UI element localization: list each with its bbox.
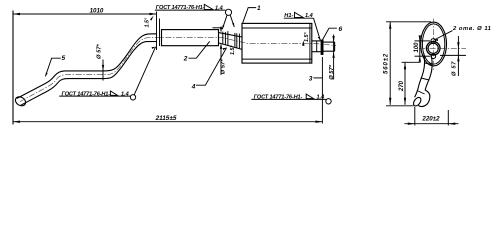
tail pipe segment seams: [417, 63, 433, 94]
muffler top seam: [242, 27, 312, 29]
extension line at outlet flange: [321, 57, 323, 124]
weld leader V left branch: [222, 15, 227, 29]
dimension 1010: [13, 13, 157, 15]
extension line left: [12, 11, 14, 125]
dimension Ø57 end view: [457, 36, 459, 76]
tail pipe end view: [415, 53, 432, 106]
weld callout H1 top middle: [284, 12, 314, 19]
svg-text:100: 100: [414, 42, 420, 53]
svg-text:1.5°: 1.5°: [304, 32, 310, 42]
weld circle bottom-left: [130, 95, 135, 100]
svg-text:2 отв. Ø 11: 2 отв. Ø 11: [452, 26, 491, 32]
muffler bottom seam: [242, 58, 312, 60]
svg-text:1010: 1010: [90, 7, 104, 14]
svg-text:Ø 57*: Ø 57*: [97, 43, 103, 59]
extension lines bolt holes: [415, 41, 431, 56]
dimension 220±2: [405, 123, 459, 125]
angle 1.5 arrow muffler outlet: [302, 40, 304, 46]
outlet pipe muffler to flange: [312, 41, 321, 52]
leader 2 holes: [434, 31, 453, 41]
leader 1: [243, 8, 257, 23]
extension line collar bottom: [440, 54, 466, 56]
svg-text:1.5°: 1.5°: [145, 17, 151, 27]
weld callout GOST bottom-right: [251, 94, 326, 100]
Ø57 dimension at inlet pipe: [102, 60, 104, 81]
weld callout GOST top: [155, 4, 226, 11]
resonator body: [162, 30, 219, 46]
leader 4: [196, 48, 227, 86]
weld leader V right branch: [230, 15, 234, 27]
muffler end view oval: [421, 22, 447, 66]
svg-text:5: 5: [61, 55, 65, 62]
tail pipe end opening: [412, 96, 422, 107]
dimension 100: [419, 35, 421, 61]
outlet pipe stub: [324, 42, 335, 51]
svg-text:2115±5: 2115±5: [155, 115, 177, 122]
weld leader H1 to outlet flange: [314, 18, 321, 40]
Ø57 dimension after resonator: [220, 27, 222, 76]
inlet pipe end ellipse: [14, 95, 27, 108]
svg-text:560±2: 560±2: [383, 53, 389, 74]
svg-text:220±2: 220±2: [421, 116, 440, 123]
leader 3: [313, 77, 322, 79]
joint rings after resonator: [223, 31, 240, 48]
svg-text:2: 2: [183, 55, 188, 62]
extension line top of oval: [386, 21, 431, 23]
inlet flange ring: [159, 19, 161, 47]
svg-text:1: 1: [257, 5, 261, 12]
leader 2: [189, 41, 210, 58]
svg-text:1.5°: 1.5°: [230, 45, 236, 55]
svg-text:6: 6: [338, 26, 342, 33]
muffler right inner edge: [309, 23, 311, 63]
outlet collar outer circle: [426, 42, 440, 56]
extension line 270 top: [402, 61, 421, 63]
outlet collar inner circle: [428, 43, 438, 53]
extension line at resonator inlet: [156, 12, 158, 51]
leader 6: [322, 28, 337, 40]
end view horizontal centerline: [419, 47, 466, 49]
weld leader to resonator inlet: [134, 47, 155, 95]
end view vertical centerline: [433, 19, 435, 71]
dimension 2115±5: [13, 121, 323, 123]
angle 1.5 arrow at inlet: [150, 16, 154, 21]
extension line 220 left: [414, 107, 416, 126]
weld circle top: [225, 9, 231, 15]
weld callout GOST bottom-left: [59, 91, 131, 97]
extension line bottom tail end: [386, 105, 414, 107]
outlet pipe ring: [316, 41, 318, 51]
svg-text:Ø 57*: Ø 57*: [329, 64, 335, 80]
muffler body: [242, 23, 312, 63]
svg-text:270: 270: [399, 80, 405, 92]
extension line at resonator exit: [213, 27, 221, 29]
leader 5: [45, 58, 60, 76]
bolt hole lower: [431, 54, 436, 59]
dimension 560±2: [389, 22, 391, 105]
svg-text:Ø 57*: Ø 57*: [221, 59, 227, 75]
pipe resonator to muffler outline: [219, 33, 243, 50]
svg-text:4: 4: [191, 83, 196, 90]
weld circle bottom-right: [326, 99, 331, 104]
extension line 220 right: [447, 110, 449, 126]
bolt hole upper: [431, 39, 436, 44]
svg-text:3: 3: [309, 75, 313, 82]
dimension 270: [404, 62, 406, 105]
inlet pipe outline: [17, 34, 157, 106]
Ø57 dimension at outlet: [332, 35, 334, 80]
svg-text:Ø 57: Ø 57: [452, 61, 458, 76]
outlet flange plate: [321, 40, 324, 55]
muffler end view oval inner: [422, 24, 444, 64]
pipe centerline (dash-dot): [20, 38, 336, 102]
